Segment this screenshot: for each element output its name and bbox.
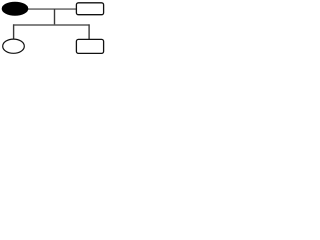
sibship wire (horizontal) xyxy=(13,24,90,26)
son: male, white rectangle xyxy=(76,39,103,53)
father: male, white rectangle xyxy=(76,3,103,15)
background xyxy=(0,0,110,58)
left drop wire (to daughter ellipse) xyxy=(13,24,15,39)
couple wire (horizontal, mother to father) xyxy=(27,8,76,10)
right drop wire (to son rectangle) xyxy=(88,24,90,39)
descent wire (vertical from couple line) xyxy=(54,9,56,26)
daughter: female, white ellipse xyxy=(3,39,25,53)
mother: affected female, filled black ellipse xyxy=(2,2,28,15)
